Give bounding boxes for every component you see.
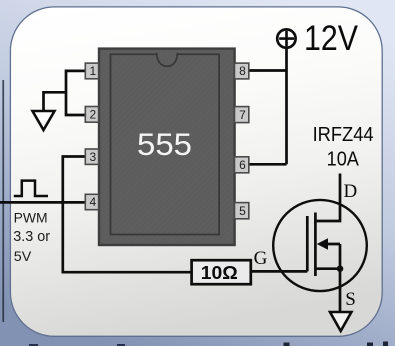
- svg-text:5: 5: [239, 204, 246, 218]
- svg-text:S: S: [345, 289, 356, 310]
- svg-text:10Ω: 10Ω: [201, 263, 238, 283]
- svg-text:4: 4: [89, 195, 96, 209]
- svg-text:2: 2: [89, 108, 96, 122]
- svg-text:IRFZ44: IRFZ44: [313, 123, 374, 146]
- svg-text:10A: 10A: [327, 148, 360, 171]
- svg-text:G: G: [254, 248, 268, 269]
- svg-text:3.3 or: 3.3 or: [13, 229, 50, 245]
- svg-text:D: D: [344, 181, 358, 202]
- svg-text:3: 3: [89, 150, 96, 164]
- svg-text:PWM: PWM: [14, 210, 48, 226]
- svg-text:555: 555: [137, 126, 192, 162]
- svg-text:5V: 5V: [14, 248, 32, 264]
- svg-text:1: 1: [89, 64, 96, 78]
- svg-text:7: 7: [239, 108, 246, 122]
- svg-text:6: 6: [239, 158, 246, 172]
- svg-text:12V: 12V: [304, 19, 359, 58]
- svg-text:8: 8: [239, 64, 246, 78]
